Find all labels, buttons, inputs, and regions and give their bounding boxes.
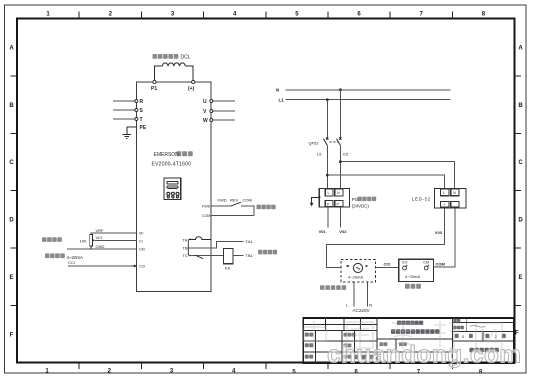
svg-text:C: C bbox=[518, 160, 523, 166]
svg-text:F: F bbox=[10, 332, 14, 338]
wire N pole drop bbox=[339, 90, 341, 139]
svg-text:QF52: QF52 bbox=[309, 140, 320, 145]
relay contact bracket bbox=[188, 239, 190, 256]
svg-text:D: D bbox=[9, 218, 14, 224]
svg-text:AC220V: AC220V bbox=[353, 308, 371, 313]
wire AC220V N bbox=[366, 282, 368, 307]
DC reactor DCL label bbox=[153, 54, 191, 61]
svg-text:N: N bbox=[276, 87, 279, 92]
svg-text:GND: GND bbox=[96, 244, 105, 249]
svg-text:+: + bbox=[443, 203, 445, 207]
svg-text:TA1: TA1 bbox=[246, 239, 254, 244]
svg-text:TA: TA bbox=[183, 237, 188, 242]
relay contact TA (NO) bbox=[189, 237, 212, 240]
svg-text:A: A bbox=[518, 45, 523, 51]
wire branch L to LED-52 bbox=[327, 175, 444, 188]
node N branch bbox=[339, 88, 342, 91]
wire FWD with switch bbox=[211, 205, 231, 207]
node L1 branch bbox=[326, 98, 329, 101]
svg-text:B: B bbox=[9, 103, 14, 109]
wire CCI bbox=[68, 265, 136, 267]
watermark bbox=[304, 321, 502, 349]
svg-text:4~20mA: 4~20mA bbox=[405, 274, 420, 279]
svg-text:N: N bbox=[337, 191, 340, 195]
svg-text:L: L bbox=[328, 191, 330, 195]
svg-text:L5: L5 bbox=[317, 152, 322, 157]
svg-text:C: C bbox=[9, 160, 14, 166]
svg-text:CM: CM bbox=[139, 247, 145, 251]
wire input T bbox=[113, 118, 135, 120]
svg-text:10K: 10K bbox=[80, 239, 87, 244]
svg-text:REV: REV bbox=[230, 198, 239, 203]
svg-text:chuandong.com: chuandong.com bbox=[327, 342, 521, 369]
svg-text:W: W bbox=[203, 118, 208, 124]
svg-text:(+): (+) bbox=[188, 86, 195, 92]
svg-text:U: U bbox=[203, 99, 207, 105]
relay contact TC (NC) + wire bbox=[189, 254, 224, 256]
circuit breaker QF52 bbox=[323, 137, 341, 145]
svg-text:V03: V03 bbox=[435, 230, 443, 235]
wire output W bbox=[213, 119, 236, 121]
svg-text:B: B bbox=[518, 103, 523, 109]
wire LED out to meter COM bbox=[433, 208, 455, 267]
inverter analog terminal labels bbox=[139, 232, 145, 269]
reference signal label bbox=[42, 237, 47, 242]
svg-text:COM: COM bbox=[436, 261, 446, 266]
svg-text:FWD: FWD bbox=[218, 198, 227, 203]
svg-text:EV2000-4T1600: EV2000-4T1600 bbox=[152, 162, 192, 168]
svg-text:VCI: VCI bbox=[96, 235, 103, 240]
wire V02 bbox=[339, 207, 341, 227]
inverter U1 EV2000-4T1600 box bbox=[136, 82, 211, 292]
wire breaker to PG module bbox=[326, 145, 328, 188]
wire AC220V L bbox=[353, 282, 355, 307]
speed transducer (dashed box) bbox=[341, 259, 376, 282]
wire COM bbox=[211, 214, 254, 216]
svg-text:FWD: FWD bbox=[202, 204, 211, 208]
svg-text:V01: V01 bbox=[319, 229, 327, 234]
wire branch N to LED-52 bbox=[340, 162, 454, 189]
node branch to LED N bbox=[339, 160, 342, 163]
PG chassis ground bbox=[312, 197, 320, 203]
wire L1 line bbox=[286, 99, 451, 101]
wire input S bbox=[113, 109, 135, 111]
svg-text:CCI: CCI bbox=[68, 260, 75, 265]
wire LED out V03 to transducer bbox=[327, 208, 445, 267]
svg-text:L: L bbox=[443, 191, 445, 195]
wire VRF bbox=[91, 233, 136, 235]
terminal P1 bbox=[153, 80, 156, 83]
ammeter label bbox=[405, 284, 410, 289]
wire GND bbox=[90, 246, 92, 249]
svg-text:CCI: CCI bbox=[384, 261, 391, 266]
svg-text:V02: V02 bbox=[339, 229, 347, 234]
fault signal label bbox=[258, 250, 262, 255]
svg-text:L1: L1 bbox=[279, 98, 285, 103]
svg-text:D: D bbox=[518, 218, 523, 224]
svg-text:E: E bbox=[518, 275, 522, 281]
inductor DCL bbox=[155, 66, 163, 81]
inverter keypad icon bbox=[164, 178, 181, 200]
wire input R bbox=[113, 100, 135, 102]
svg-text:(24VDC): (24VDC) bbox=[352, 203, 370, 208]
svg-text:T: T bbox=[140, 117, 143, 123]
svg-text:TC: TC bbox=[183, 253, 188, 258]
svg-text:P1: P1 bbox=[151, 86, 157, 92]
svg-text:F: F bbox=[515, 330, 519, 336]
svg-text:VF: VF bbox=[139, 232, 144, 236]
svg-text:N: N bbox=[369, 303, 372, 308]
title block bbox=[303, 318, 514, 363]
node branch to LED L bbox=[326, 174, 329, 177]
svg-text:KA: KA bbox=[225, 266, 231, 271]
wire V01 bbox=[327, 207, 329, 227]
svg-text:CCI: CCI bbox=[139, 265, 145, 269]
relay coil KA bbox=[224, 248, 234, 263]
svg-text:R: R bbox=[140, 99, 144, 105]
wire N line bbox=[286, 89, 451, 91]
svg-text:E5: E5 bbox=[343, 152, 349, 157]
wire VCI (wiper) bbox=[95, 239, 136, 241]
svg-text:DCL: DCL bbox=[181, 55, 191, 61]
svg-text:TB1: TB1 bbox=[246, 253, 254, 258]
svg-text:4~20mA: 4~20mA bbox=[348, 274, 363, 279]
svg-text:N: N bbox=[453, 191, 456, 195]
svg-text:COM: COM bbox=[243, 198, 252, 203]
terminal PE wire bbox=[127, 127, 137, 134]
feedback signal 4~20mA label bbox=[45, 253, 50, 258]
svg-text:CO: CO bbox=[402, 261, 408, 265]
svg-text:CM: CM bbox=[423, 261, 429, 265]
ground symbol bbox=[123, 134, 131, 138]
svg-text:CI: CI bbox=[139, 240, 143, 244]
svg-text:COM: COM bbox=[202, 214, 210, 218]
wire output U bbox=[213, 100, 236, 102]
svg-text:VRF: VRF bbox=[96, 228, 105, 233]
wire TB to TA1 bbox=[189, 241, 244, 248]
svg-text:A: A bbox=[9, 45, 14, 51]
title block texts bbox=[397, 321, 401, 325]
svg-text:TB: TB bbox=[183, 246, 188, 251]
wire L1 pole drop bbox=[326, 100, 328, 139]
svg-text:E: E bbox=[9, 275, 13, 281]
start/stop signal label bbox=[257, 205, 261, 210]
svg-text:LED-52: LED-52 bbox=[412, 196, 431, 201]
ammeter display box bbox=[399, 259, 434, 281]
PG power supply module (24VDC) bbox=[319, 189, 349, 207]
speed transducer label bbox=[320, 285, 325, 290]
terminal (+) bbox=[192, 80, 195, 83]
wire output V bbox=[213, 110, 236, 112]
svg-text:PE: PE bbox=[140, 125, 147, 131]
switch wire labels FWD REV COM bbox=[218, 198, 252, 203]
svg-text:EMERSON: EMERSON bbox=[154, 152, 180, 158]
wire CCI transducer to meter bbox=[376, 266, 399, 268]
inverter model text bbox=[152, 151, 193, 167]
LED-52 panel meter bbox=[435, 189, 466, 209]
wire coil to TB1 bbox=[233, 254, 243, 256]
